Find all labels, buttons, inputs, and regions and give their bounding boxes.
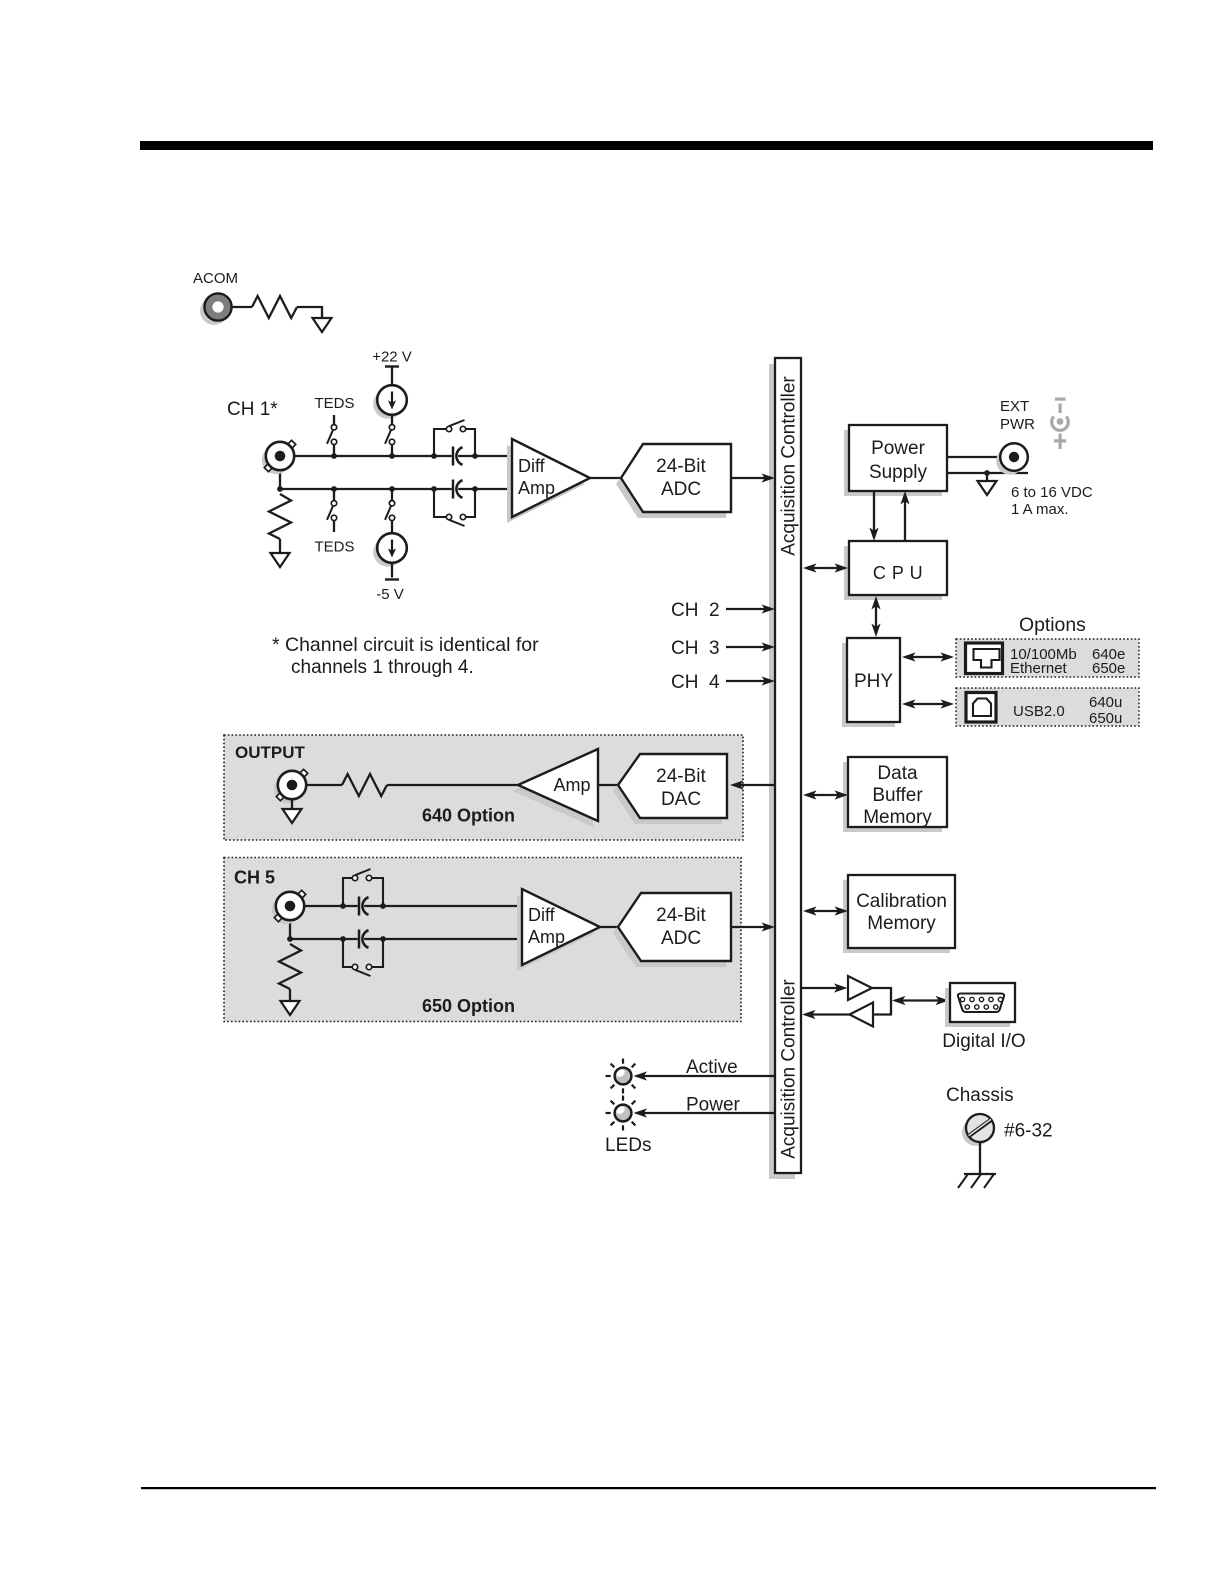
- svg-text:ADC: ADC: [661, 479, 701, 500]
- svg-text:Data: Data: [877, 763, 918, 784]
- svg-text:channels 1 through 4.: channels 1 through 4.: [291, 657, 474, 678]
- svg-text:PHY: PHY: [854, 671, 893, 692]
- svg-text:TEDS: TEDS: [315, 539, 355, 556]
- svg-text:CH 3: CH 3: [671, 638, 720, 659]
- svg-text:Amp: Amp: [528, 927, 565, 947]
- svg-text:ADC: ADC: [661, 928, 701, 949]
- svg-text:640 Option: 640 Option: [422, 806, 515, 826]
- svg-text:Diff: Diff: [528, 905, 556, 925]
- svg-text:CH 5: CH 5: [234, 868, 275, 888]
- svg-text:Diff: Diff: [518, 456, 546, 476]
- svg-text:Memory: Memory: [863, 807, 932, 828]
- svg-text:CH 2: CH 2: [671, 600, 720, 621]
- svg-text:Active: Active: [686, 1057, 738, 1078]
- svg-text:24-Bit: 24-Bit: [656, 905, 706, 926]
- svg-text:650e: 650e: [1092, 660, 1125, 677]
- svg-text:24-Bit: 24-Bit: [656, 766, 706, 787]
- svg-text:-5 V: -5 V: [376, 586, 404, 603]
- svg-text:USB2.0: USB2.0: [1013, 703, 1065, 720]
- svg-text:Acquisition Controller: Acquisition Controller: [779, 376, 800, 556]
- svg-text:640u: 640u: [1089, 694, 1122, 711]
- svg-text:Acquisition Controller: Acquisition Controller: [779, 979, 800, 1159]
- svg-text:CH 1*: CH 1*: [227, 399, 278, 420]
- svg-text:Calibration: Calibration: [856, 891, 947, 912]
- svg-text:Chassis: Chassis: [946, 1085, 1014, 1106]
- svg-text:1 A max.: 1 A max.: [1011, 501, 1069, 518]
- svg-text:Options: Options: [1019, 614, 1086, 636]
- svg-text:TEDS: TEDS: [315, 395, 355, 412]
- svg-text:+22 V: +22 V: [372, 349, 412, 366]
- svg-text:* Channel circuit is identical: * Channel circuit is identical for: [272, 634, 539, 656]
- svg-text:DAC: DAC: [661, 789, 701, 810]
- svg-text:Digital I/O: Digital I/O: [942, 1031, 1025, 1052]
- svg-text:Power: Power: [871, 438, 926, 459]
- svg-text:Amp: Amp: [518, 478, 555, 498]
- svg-text:OUTPUT: OUTPUT: [235, 743, 306, 762]
- svg-text:Supply: Supply: [869, 462, 928, 483]
- svg-text:Memory: Memory: [867, 913, 936, 934]
- svg-text:#6-32: #6-32: [1004, 1121, 1053, 1142]
- svg-text:EXT: EXT: [1000, 398, 1029, 415]
- svg-text:24-Bit: 24-Bit: [656, 456, 706, 477]
- svg-text:PWR: PWR: [1000, 416, 1035, 433]
- svg-text:ACOM: ACOM: [193, 270, 238, 287]
- svg-text:CH 4: CH 4: [671, 672, 720, 693]
- svg-text:Amp: Amp: [553, 775, 590, 795]
- svg-text:Buffer: Buffer: [872, 785, 923, 806]
- svg-text:6 to 16 VDC: 6 to 16 VDC: [1011, 484, 1093, 501]
- svg-text:C P U: C P U: [873, 563, 923, 583]
- svg-text:650 Option: 650 Option: [422, 996, 515, 1016]
- svg-text:Ethernet: Ethernet: [1010, 660, 1068, 677]
- svg-text:LEDs: LEDs: [605, 1135, 651, 1156]
- svg-text:650u: 650u: [1089, 710, 1122, 727]
- svg-text:Power: Power: [686, 1095, 741, 1116]
